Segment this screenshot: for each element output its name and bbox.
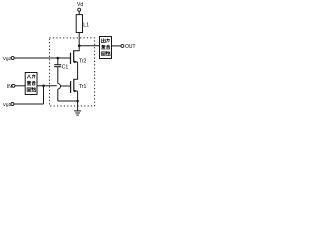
terminal Vd (78, 8, 81, 11)
wire Tr1 source to ground node (77, 91, 79, 101)
node drain junction (78, 44, 81, 47)
wire node to output matching box (79, 45, 99, 47)
terminal OUT (121, 44, 124, 47)
svg-text:Vg2: Vg2 (3, 56, 12, 62)
wire output box to OUT (112, 45, 121, 47)
svg-text:L1: L1 (83, 23, 89, 29)
transistor Tr2 (71, 50, 78, 64)
wire Vd to L1 (78, 11, 80, 14)
label 整合 (27, 81, 36, 85)
node Vg1 junction (42, 85, 45, 88)
input matching circuit box (25, 73, 37, 95)
svg-text:Vd: Vd (77, 2, 83, 8)
terminal IN (12, 84, 15, 87)
wire node to C1 (57, 58, 59, 64)
wire L1 to drain node (78, 33, 80, 46)
label 回路 (102, 52, 111, 56)
wire drain bend into Tr2 (74, 46, 80, 51)
wire Vg1 to junction (14, 86, 44, 104)
wire crossover to ground node (58, 89, 77, 101)
wire IN to input matching box (15, 85, 25, 87)
inductor L1 (76, 15, 82, 33)
dashed functional-block boundary (50, 38, 95, 106)
wire ground stem (77, 101, 79, 111)
wire crossover hop (58, 84, 61, 90)
svg-text:Tr2: Tr2 (79, 59, 87, 65)
output matching circuit box (100, 37, 112, 59)
svg-text:Tr1: Tr1 (79, 84, 87, 90)
wire Tr2 source to Tr1 drain (74, 62, 78, 79)
label 回路 (27, 88, 36, 92)
node C1 junction (57, 57, 60, 60)
svg-text:OUT: OUT (125, 44, 136, 50)
ground (74, 111, 81, 115)
wire input box to Tr1 gate left segment (37, 85, 57, 87)
terminal Vg1 (11, 103, 14, 106)
node ground junction (76, 100, 79, 103)
background (0, 0, 140, 120)
capacitor C1 (54, 65, 61, 67)
svg-text:Vg1: Vg1 (3, 102, 12, 108)
svg-text:IN: IN (7, 84, 12, 90)
svg-text:C1: C1 (62, 64, 69, 70)
wire Vg2 to Tr2 gate (14, 57, 70, 59)
label 入力 (27, 74, 35, 78)
label 整合 (101, 45, 110, 49)
label 出力 (101, 38, 109, 42)
wire hop right segment to Tr1 gate (61, 85, 70, 87)
terminal Vg2 (11, 57, 14, 60)
wire C1 to crossover (57, 67, 59, 83)
transistor Tr1 (71, 79, 78, 93)
